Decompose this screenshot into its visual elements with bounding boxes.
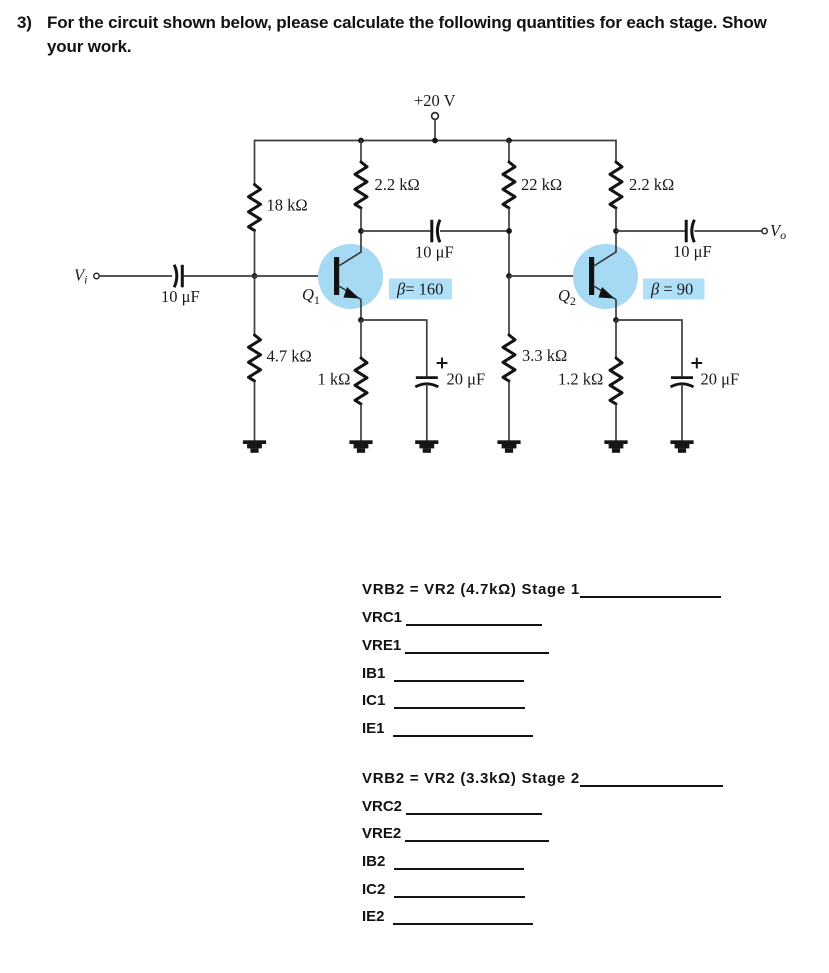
svg-text:1.2 kΩ: 1.2 kΩ bbox=[558, 370, 603, 389]
svg-text:β = 90: β = 90 bbox=[650, 280, 693, 299]
svg-text:+20 V: +20 V bbox=[414, 91, 456, 110]
resistor RE1 1k bbox=[355, 358, 367, 404]
resistor R3 22k bbox=[503, 162, 515, 208]
output terminal Vo bbox=[762, 228, 767, 233]
wire R3 bottom to divider node bbox=[508, 208, 510, 276]
svg-text:10 μF: 10 μF bbox=[415, 243, 454, 262]
junction dot collector node 1 bbox=[358, 228, 364, 234]
ground CE1 bbox=[415, 440, 438, 453]
junction dot rail/supply bbox=[432, 138, 438, 144]
svg-text:β= 160: β= 160 bbox=[396, 280, 443, 299]
wire R1 bottom to base node bbox=[254, 231, 256, 277]
wire emitter node to RE1 bbox=[360, 320, 362, 358]
wire RC2 bottom to collector node 2 bbox=[615, 208, 617, 253]
wire base node 2 to Q2 base bbox=[509, 275, 589, 277]
wire R3 top lead bbox=[508, 140, 510, 162]
wire R4 to ground bbox=[508, 381, 510, 441]
wire Vi to C1 bbox=[99, 275, 172, 277]
capacitor C3 10uF output bbox=[686, 220, 694, 243]
resistor RC2 2.2k bbox=[610, 162, 622, 208]
resistor R1 18k bbox=[249, 185, 261, 231]
resistor R2 4.7k bbox=[249, 335, 261, 381]
input terminal Vi bbox=[94, 273, 99, 278]
junction dot emitter node 1 bbox=[358, 317, 364, 323]
svg-text:Vi: Vi bbox=[74, 266, 87, 287]
wire C3 to Vo bbox=[694, 230, 762, 232]
supply +20V terminal bbox=[414, 91, 456, 141]
ground CE2 bbox=[670, 440, 693, 453]
wire base node to R2 bbox=[254, 276, 256, 335]
junction dot C2/divider bbox=[506, 228, 512, 234]
svg-text:3.3 kΩ: 3.3 kΩ bbox=[522, 346, 567, 365]
svg-text:4.7 kΩ: 4.7 kΩ bbox=[267, 347, 312, 366]
wire CE2 to ground bbox=[681, 384, 683, 441]
junction dot base node 1 bbox=[252, 273, 258, 279]
resistor RE2 1.2k bbox=[610, 358, 622, 404]
wire base node 2 to R4 bbox=[508, 276, 510, 335]
wire left column top bbox=[254, 140, 256, 185]
wire emitter node to CE1 bbox=[361, 320, 427, 376]
wire emitter node 2 to RE2 bbox=[615, 320, 617, 358]
wire Q2 emitter to node bbox=[615, 300, 617, 321]
capacitor C1 10uF input coupling bbox=[174, 265, 182, 288]
wire collector node 2 to C3 bbox=[616, 230, 685, 232]
svg-text:10 μF: 10 μF bbox=[161, 287, 200, 306]
capacitor CE1 20uF bypass bbox=[415, 378, 438, 387]
svg-text:20 μF: 20 μF bbox=[701, 370, 740, 389]
wire R2 bottom to ground bbox=[254, 381, 256, 441]
beta label Q1 bbox=[389, 279, 452, 300]
wire top rail bbox=[255, 140, 617, 142]
junction dot collector node 2 bbox=[613, 228, 619, 234]
junction dot rail/RC1 bbox=[358, 138, 364, 144]
wire RE1 to ground bbox=[360, 404, 362, 441]
resistor RC1 2.2k bbox=[355, 162, 367, 208]
transistor Q1 bbox=[302, 244, 383, 309]
resistor R4 3.3k bbox=[503, 335, 515, 381]
ground R4 bbox=[497, 440, 520, 453]
wire emitter node 2 to CE2 bbox=[616, 320, 682, 376]
wire RE2 to ground bbox=[615, 404, 617, 441]
svg-text:22 kΩ: 22 kΩ bbox=[521, 175, 562, 194]
ground R2 bbox=[243, 440, 266, 453]
ground RE1 bbox=[349, 440, 372, 453]
wire RC2 top lead bbox=[615, 140, 617, 162]
wire collector node to C2 bbox=[361, 230, 431, 232]
svg-text:2.2 kΩ: 2.2 kΩ bbox=[375, 175, 420, 194]
svg-text:Vo: Vo bbox=[770, 221, 786, 242]
svg-text:Q1: Q1 bbox=[302, 285, 320, 307]
junction dot emitter node 2 bbox=[613, 317, 619, 323]
beta label Q2 bbox=[643, 279, 705, 300]
wire RC1 bottom to collector node bbox=[360, 208, 362, 253]
wire RC1 top lead bbox=[360, 140, 362, 162]
capacitor C2 10uF interstage bbox=[432, 220, 440, 243]
svg-text:20 μF: 20 μF bbox=[447, 370, 486, 389]
transistor Q2 bbox=[558, 244, 638, 309]
svg-text:18 kΩ: 18 kΩ bbox=[267, 196, 308, 215]
junction dot base node 2 bbox=[506, 273, 512, 279]
wire C1 to base node bbox=[184, 275, 335, 277]
svg-text:Q2: Q2 bbox=[558, 286, 576, 308]
ground RE2 bbox=[604, 440, 627, 453]
wire Q1 emitter to node bbox=[360, 300, 362, 321]
junction dot rail/R3 bbox=[506, 138, 512, 144]
svg-text:10 μF: 10 μF bbox=[673, 242, 712, 261]
wire C2 to stage2 divider node bbox=[440, 230, 509, 232]
svg-text:1 kΩ: 1 kΩ bbox=[318, 370, 351, 389]
capacitor CE2 20uF bypass bbox=[671, 378, 694, 387]
svg-text:2.2 kΩ: 2.2 kΩ bbox=[629, 175, 674, 194]
wire CE1 to ground bbox=[426, 384, 428, 441]
